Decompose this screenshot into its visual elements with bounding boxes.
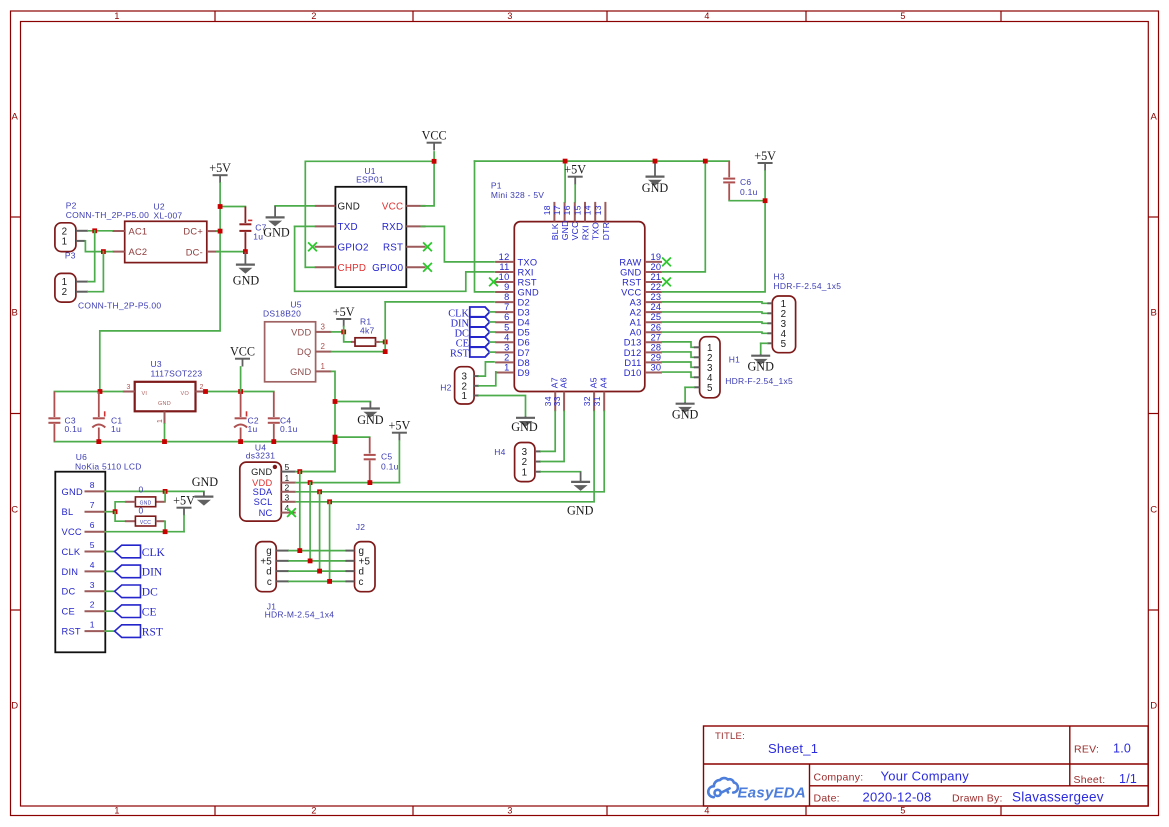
svg-text:7: 7 xyxy=(90,500,95,510)
svg-text:Sheet:: Sheet: xyxy=(1074,774,1106,786)
svg-text:EasyEDA: EasyEDA xyxy=(738,784,806,801)
svg-text:18: 18 xyxy=(542,205,552,215)
svg-text:4: 4 xyxy=(285,503,290,513)
svg-text:GND: GND xyxy=(357,413,384,427)
svg-text:4: 4 xyxy=(704,11,709,21)
svg-text:DC+: DC+ xyxy=(183,227,203,237)
svg-text:1u: 1u xyxy=(253,231,263,241)
svg-text:TITLE:: TITLE: xyxy=(715,731,745,742)
svg-text:23: 23 xyxy=(651,292,662,302)
svg-text:27: 27 xyxy=(651,332,662,342)
svg-text:D9: D9 xyxy=(518,368,530,378)
svg-text:0.1u: 0.1u xyxy=(65,424,83,434)
svg-text:0: 0 xyxy=(139,506,144,516)
svg-text:3: 3 xyxy=(285,492,290,502)
svg-text:2: 2 xyxy=(90,600,95,610)
svg-text:15: 15 xyxy=(572,205,582,215)
svg-text:3: 3 xyxy=(507,11,512,21)
svg-text:SDA: SDA xyxy=(253,487,273,497)
svg-text:GND: GND xyxy=(158,401,171,407)
svg-text:DC-: DC- xyxy=(186,247,203,257)
svg-text:3: 3 xyxy=(127,384,131,391)
svg-text:1: 1 xyxy=(62,236,68,247)
svg-text:RXD: RXD xyxy=(382,222,403,233)
svg-text:CLK: CLK xyxy=(62,547,81,557)
svg-text:Mini 328 - 5V: Mini 328 - 5V xyxy=(491,190,544,200)
svg-text:GND: GND xyxy=(747,359,774,373)
svg-text:28: 28 xyxy=(651,342,662,352)
svg-text:GND: GND xyxy=(338,202,361,213)
svg-text:TXO: TXO xyxy=(518,257,538,267)
svg-text:GPIO2: GPIO2 xyxy=(338,242,369,253)
svg-text:4: 4 xyxy=(704,806,709,816)
svg-text:D7: D7 xyxy=(518,348,530,358)
svg-text:33: 33 xyxy=(552,396,562,406)
svg-text:Slavassergeev: Slavassergeev xyxy=(1012,790,1104,805)
svg-text:17: 17 xyxy=(552,205,562,215)
svg-text:8: 8 xyxy=(504,292,509,302)
svg-text:NoKia 5110 LCD: NoKia 5110 LCD xyxy=(75,461,142,471)
svg-text:30: 30 xyxy=(651,362,662,372)
svg-text:11: 11 xyxy=(499,262,509,272)
svg-text:1: 1 xyxy=(114,11,119,21)
svg-text:D: D xyxy=(1150,700,1157,711)
svg-text:D6: D6 xyxy=(518,338,530,348)
svg-text:DQ: DQ xyxy=(297,347,311,357)
svg-text:H2: H2 xyxy=(440,383,451,393)
svg-text:1: 1 xyxy=(461,391,467,402)
svg-text:2: 2 xyxy=(311,806,316,816)
svg-text:VDD: VDD xyxy=(291,327,311,337)
svg-text:RXI: RXI xyxy=(580,225,590,240)
svg-text:0.1u: 0.1u xyxy=(740,187,758,197)
svg-text:Drawn By:: Drawn By: xyxy=(952,793,1003,805)
svg-text:A: A xyxy=(12,111,19,122)
svg-text:VCC: VCC xyxy=(621,287,641,297)
svg-text:C: C xyxy=(1150,504,1157,515)
svg-text:5: 5 xyxy=(90,540,95,550)
svg-text:AC1: AC1 xyxy=(129,226,148,236)
svg-text:TXO: TXO xyxy=(591,222,601,240)
svg-text:RST: RST xyxy=(518,277,537,287)
svg-text:CE: CE xyxy=(142,607,157,619)
svg-text:16: 16 xyxy=(562,205,572,215)
svg-text:2: 2 xyxy=(62,287,68,298)
svg-text:+5V: +5V xyxy=(209,161,231,175)
svg-text:3: 3 xyxy=(504,342,509,352)
svg-text:D3: D3 xyxy=(518,308,530,318)
svg-text:3: 3 xyxy=(321,322,326,331)
svg-text:32: 32 xyxy=(582,396,592,406)
svg-text:22: 22 xyxy=(651,282,662,292)
svg-text:D: D xyxy=(11,700,18,711)
svg-text:GND: GND xyxy=(620,267,641,277)
svg-text:31: 31 xyxy=(592,396,602,406)
svg-text:VCC: VCC xyxy=(570,221,580,240)
svg-text:B: B xyxy=(12,307,19,318)
svg-text:29: 29 xyxy=(651,352,662,362)
svg-text:Date:: Date: xyxy=(814,793,840,805)
svg-text:0.1u: 0.1u xyxy=(280,424,298,434)
svg-text:DS18B20: DS18B20 xyxy=(263,309,301,319)
svg-text:6: 6 xyxy=(90,520,95,530)
svg-text:c: c xyxy=(359,577,364,588)
svg-text:RAW: RAW xyxy=(619,257,641,267)
svg-text:0.1u: 0.1u xyxy=(381,461,399,471)
svg-text:H4: H4 xyxy=(494,447,505,457)
svg-text:13: 13 xyxy=(593,205,603,215)
svg-text:1: 1 xyxy=(114,806,119,816)
svg-text:2: 2 xyxy=(285,482,290,492)
svg-text:C: C xyxy=(11,504,18,515)
svg-text:6: 6 xyxy=(504,312,509,322)
svg-text:1u: 1u xyxy=(248,424,258,434)
svg-text:5: 5 xyxy=(781,339,787,350)
svg-text:4k7: 4k7 xyxy=(360,326,374,336)
svg-text:4: 4 xyxy=(504,332,509,342)
svg-text:CE: CE xyxy=(62,607,75,617)
svg-text:CONN-TH_2P-P5.00: CONN-TH_2P-P5.00 xyxy=(66,210,149,220)
svg-text:DTR: DTR xyxy=(601,222,611,240)
svg-text:RST: RST xyxy=(622,277,641,287)
svg-text:3: 3 xyxy=(90,580,95,590)
svg-text:GND: GND xyxy=(62,487,83,497)
svg-text:7: 7 xyxy=(504,302,509,312)
svg-text:U3: U3 xyxy=(151,359,162,369)
svg-text:CONN-TH_2P-P5.00: CONN-TH_2P-P5.00 xyxy=(78,301,161,311)
svg-text:A3: A3 xyxy=(630,298,642,308)
svg-text:GND: GND xyxy=(290,367,311,377)
svg-text:+5V: +5V xyxy=(389,419,411,433)
svg-text:TXD: TXD xyxy=(338,222,358,233)
svg-text:HDR-M-2.54_1x4: HDR-M-2.54_1x4 xyxy=(265,609,335,619)
svg-text:25: 25 xyxy=(651,312,662,322)
svg-text:GND: GND xyxy=(567,504,594,518)
svg-text:RST: RST xyxy=(383,242,403,253)
svg-text:RST: RST xyxy=(62,627,81,637)
svg-text:GND: GND xyxy=(263,226,290,240)
svg-text:GND: GND xyxy=(192,475,219,489)
svg-text:CLK: CLK xyxy=(142,547,166,559)
svg-text:1: 1 xyxy=(504,362,509,372)
svg-text:1: 1 xyxy=(522,467,528,478)
svg-text:DIN: DIN xyxy=(142,567,163,579)
svg-text:J2: J2 xyxy=(356,522,366,532)
svg-text:ds3231: ds3231 xyxy=(246,450,275,460)
svg-text:VCC: VCC xyxy=(140,520,151,526)
svg-text:9: 9 xyxy=(504,282,509,292)
svg-text:BLK: BLK xyxy=(550,223,560,240)
svg-text:24: 24 xyxy=(651,302,662,312)
svg-text:A: A xyxy=(1151,111,1158,122)
svg-text:GPIO0: GPIO0 xyxy=(372,263,403,274)
svg-text:2: 2 xyxy=(311,11,316,21)
svg-text:H3: H3 xyxy=(774,272,785,282)
svg-text:2: 2 xyxy=(200,384,204,391)
svg-text:A1: A1 xyxy=(630,318,642,328)
svg-text:RST: RST xyxy=(142,626,163,638)
svg-text:P3: P3 xyxy=(65,251,76,261)
svg-text:0: 0 xyxy=(139,485,144,495)
svg-text:REV:: REV: xyxy=(1074,744,1099,756)
svg-text:XL-007: XL-007 xyxy=(154,211,183,221)
svg-text:+5V: +5V xyxy=(333,305,355,319)
svg-text:A6: A6 xyxy=(558,377,568,388)
svg-text:D8: D8 xyxy=(518,358,530,368)
svg-text:19: 19 xyxy=(651,252,662,262)
svg-text:HDR-F-2.54_1x5: HDR-F-2.54_1x5 xyxy=(725,376,793,386)
svg-text:Your Company: Your Company xyxy=(881,769,970,784)
svg-text:2: 2 xyxy=(321,342,326,351)
svg-text:H1: H1 xyxy=(729,355,740,365)
svg-text:2: 2 xyxy=(504,352,509,362)
svg-text:D13: D13 xyxy=(624,338,642,348)
svg-text:VCC: VCC xyxy=(62,527,82,537)
svg-text:10: 10 xyxy=(499,272,510,282)
svg-text:4: 4 xyxy=(90,560,95,570)
svg-text:1117SOT223: 1117SOT223 xyxy=(151,369,203,379)
svg-text:1.0: 1.0 xyxy=(1113,742,1131,756)
svg-text:RST: RST xyxy=(450,349,470,360)
svg-text:GND: GND xyxy=(672,407,699,421)
svg-text:5: 5 xyxy=(285,462,290,472)
svg-text:D5: D5 xyxy=(518,328,530,338)
svg-text:VCC: VCC xyxy=(230,345,255,359)
svg-text:D10: D10 xyxy=(624,368,642,378)
svg-text:1: 1 xyxy=(90,620,95,630)
svg-text:+5V: +5V xyxy=(564,163,586,177)
svg-text:GND: GND xyxy=(251,467,272,477)
svg-text:+5V: +5V xyxy=(173,494,195,508)
svg-text:VCC: VCC xyxy=(422,129,447,143)
svg-text:AC2: AC2 xyxy=(129,247,148,257)
svg-text:21: 21 xyxy=(651,272,662,282)
svg-text:P2: P2 xyxy=(66,201,77,211)
svg-text:A0: A0 xyxy=(630,328,642,338)
svg-text:5: 5 xyxy=(707,383,713,394)
svg-text:2020-12-08: 2020-12-08 xyxy=(863,790,932,805)
svg-text:D11: D11 xyxy=(624,358,641,368)
svg-text:12: 12 xyxy=(499,252,510,262)
svg-text:A4: A4 xyxy=(598,377,608,388)
svg-text:Sheet_1: Sheet_1 xyxy=(768,741,818,756)
svg-text:VCC: VCC xyxy=(382,202,403,213)
svg-text:A2: A2 xyxy=(630,308,642,318)
svg-text:HDR-F-2.54_1x5: HDR-F-2.54_1x5 xyxy=(774,281,842,291)
svg-text:VI: VI xyxy=(142,391,148,397)
svg-text:ESP01: ESP01 xyxy=(356,174,384,184)
svg-text:5: 5 xyxy=(900,11,905,21)
svg-text:B: B xyxy=(1151,307,1158,318)
svg-text:SCL: SCL xyxy=(254,497,273,507)
svg-text:DC: DC xyxy=(62,587,76,597)
svg-text:C6: C6 xyxy=(740,177,751,187)
svg-text:D2: D2 xyxy=(518,298,530,308)
svg-text:NC: NC xyxy=(259,508,273,518)
svg-text:1: 1 xyxy=(321,362,326,371)
svg-text:3: 3 xyxy=(507,806,512,816)
svg-text:20: 20 xyxy=(651,262,662,272)
svg-text:1: 1 xyxy=(157,419,164,423)
svg-text:DC: DC xyxy=(142,587,158,599)
svg-text:+5V: +5V xyxy=(754,149,776,163)
svg-text:RXI: RXI xyxy=(518,267,534,277)
svg-text:5: 5 xyxy=(504,322,509,332)
svg-text:D4: D4 xyxy=(518,318,530,328)
svg-text:GND: GND xyxy=(642,181,669,195)
svg-text:26: 26 xyxy=(651,322,662,332)
svg-text:BL: BL xyxy=(62,507,74,517)
svg-text:A5: A5 xyxy=(588,377,598,388)
svg-text:GND: GND xyxy=(233,273,260,287)
svg-text:1/1: 1/1 xyxy=(1119,772,1137,786)
svg-text:CHPD: CHPD xyxy=(338,263,367,274)
svg-text:5: 5 xyxy=(900,806,905,816)
svg-text:GND: GND xyxy=(511,420,538,434)
svg-text:c: c xyxy=(267,577,272,588)
svg-text:14: 14 xyxy=(583,205,593,215)
svg-text:1u: 1u xyxy=(111,424,121,434)
svg-text:DIN: DIN xyxy=(62,567,79,577)
svg-text:Company:: Company: xyxy=(814,772,864,784)
svg-text:GND: GND xyxy=(518,287,539,297)
svg-text:C5: C5 xyxy=(381,452,392,462)
svg-text:GND: GND xyxy=(560,220,570,240)
svg-text:D12: D12 xyxy=(624,348,642,358)
svg-text:8: 8 xyxy=(90,480,95,490)
svg-text:VO: VO xyxy=(181,391,190,397)
